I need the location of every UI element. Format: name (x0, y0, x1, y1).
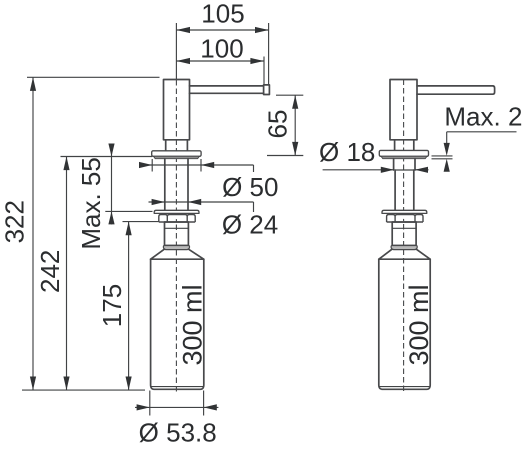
svg-text:Ø 53.8: Ø 53.8 (139, 418, 217, 448)
ext line 100 right (263, 57, 265, 85)
threaded tube front (165, 159, 188, 211)
svg-text:Max. 55: Max. 55 (76, 157, 106, 250)
dim 65 (276, 94, 303, 96)
flange band side (shaded) (381, 156, 427, 158)
svg-text:65: 65 (263, 110, 293, 139)
coupler lip front (shaded) (163, 246, 189, 250)
collar side (394, 159, 415, 170)
pump head front (164, 80, 190, 140)
ext line 242 (flange underside) (61, 156, 153, 158)
svg-text:300 ml: 300 ml (404, 284, 434, 365)
svg-text:242: 242 (35, 250, 65, 293)
svg-text:Max. 2: Max. 2 (444, 101, 522, 131)
svg-text:322: 322 (0, 200, 30, 243)
nut front (154, 210, 199, 213)
bottle shoulder front (151, 250, 204, 260)
ext line 105 right (268, 23, 270, 84)
dim Ø 50 (151, 159, 153, 172)
spout end cap front (264, 85, 270, 95)
coupler front (165, 222, 189, 246)
ext line nut top (105, 210, 152, 212)
threaded tube side (395, 170, 414, 210)
spout front (190, 86, 264, 93)
center line front (175, 23, 177, 80)
svg-text:105: 105 (201, 0, 244, 29)
svg-text:Ø 18: Ø 18 (319, 137, 375, 167)
ext line 175 top (123, 221, 159, 223)
stem between head and flange front (166, 140, 188, 151)
spout side (417, 86, 495, 94)
dim Ø 24 (149, 201, 254, 203)
svg-text:175: 175 (97, 284, 127, 327)
coupler side (392, 222, 416, 246)
ext line 322 top (27, 76, 160, 78)
svg-text:100: 100 (200, 34, 243, 64)
bottle body side (379, 259, 430, 389)
svg-text:Ø 50: Ø 50 (222, 172, 278, 202)
stem between head and flange side (395, 140, 414, 151)
svg-text:300 ml: 300 ml (177, 284, 207, 365)
flange plate front (152, 151, 201, 157)
baseline bottom (22, 389, 145, 391)
dim Ø 53.8 (149, 391, 151, 416)
bottle body front (151, 259, 204, 389)
flange plate side (379, 150, 428, 156)
coupler lip side (shaded) (391, 246, 417, 250)
flange band front (shaded) (153, 156, 199, 158)
center line side (403, 80, 405, 395)
svg-text:Ø 24: Ø 24 (222, 210, 278, 240)
pump head side (390, 80, 417, 140)
bottle shoulder side (379, 250, 430, 260)
nut side (382, 210, 427, 213)
